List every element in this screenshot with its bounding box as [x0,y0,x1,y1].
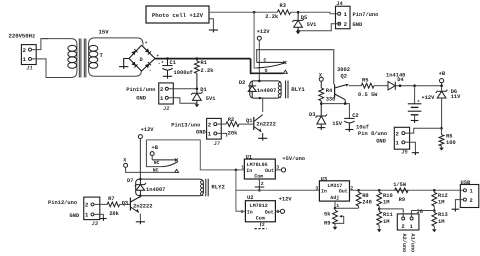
connector J1 [21,45,36,65]
svg-text:1M: 1M [383,200,389,206]
wire D4 to +B [395,85,441,87]
svg-text:1n4007: 1n4007 [257,88,276,94]
wire J5 pin1 to gnd [405,142,416,152]
wire main rail bridge to relay [155,58,251,60]
diode D2 [248,81,256,98]
wire power rail [236,189,320,191]
label pin3 U1 [276,165,279,171]
svg-text:C: C [264,57,267,63]
relay RLY1 arm [257,63,285,68]
label R9 series [399,197,405,203]
wire D6 to R6 [441,128,443,134]
label USB [461,180,471,186]
label 1n4007 D7 [146,187,165,193]
connector J3 [84,197,100,220]
transistor Q2 [335,84,349,104]
svg-text:2: 2 [262,222,265,228]
junction adj [334,207,337,210]
relay RLY2 arm [163,162,178,167]
relay RLY1 coil bumps [278,82,281,97]
wire USB pin2 gnd [455,200,463,209]
svg-text:Out: Out [339,189,348,195]
label R8 [362,193,368,199]
node +12V relay1 [257,36,261,40]
label 240 [362,200,372,206]
ground C2 [345,130,353,132]
ground bar U1 com [255,186,265,188]
svg-text:5k: 5k [324,211,331,217]
label +12V relay1 [257,29,271,35]
svg-text:Com: Com [254,173,263,179]
svg-text:GND: GND [353,22,363,28]
label GND J2 [136,96,146,102]
wire J2 pin2 to D1 [168,88,197,90]
potentiometer R9 5k [333,210,344,227]
wire photocell output [209,11,278,13]
label 1n4007 D2 [257,88,276,94]
label 2.2k R1 [201,68,215,74]
svg-text:1: 1 [396,140,400,147]
svg-text:C1: C1 [170,60,176,66]
label pin1 U3 [336,203,339,209]
svg-text:D5: D5 [301,15,307,21]
ground bridge [119,67,128,69]
relay RLY2 core [206,179,208,197]
junction battery top [413,84,416,87]
label D2 [239,80,245,86]
label +B relay2 [152,145,159,151]
wire R5 to D4 [374,85,388,87]
zener D5 [292,12,304,31]
connector J6 box [397,214,419,230]
svg-text:D3: D3 [309,112,315,118]
svg-text:Q1: Q1 [246,118,252,124]
svg-text:Pin13/uno: Pin13/uno [171,122,200,128]
ground dashed U2 [255,228,267,230]
label RLY2 [211,184,225,191]
label R9 pot [324,220,330,226]
svg-text:3: 3 [276,209,279,215]
label J2 [163,106,170,112]
svg-text:Com: Com [256,215,265,221]
svg-text:D4: D4 [397,77,404,83]
svg-text:20k: 20k [228,131,238,137]
transformer core [79,39,86,78]
svg-text:2n2222: 2n2222 [256,122,275,128]
svg-text:D7: D7 [127,178,133,184]
resistor R7 [107,202,120,207]
label D6 [451,89,457,95]
svg-text:Adj: Adj [330,195,339,201]
bridge rectifier D outline [129,45,155,71]
resistor R4 [319,81,324,103]
label C contact [264,57,267,63]
transformer T secondary loop [89,38,143,76]
svg-text:2.2k: 2.2k [265,14,279,20]
label U2 [247,195,253,201]
svg-text:1n4007: 1n4007 [146,187,165,193]
resistor R3 [278,10,291,15]
svg-text:R11: R11 [383,212,393,218]
svg-text:A2/uno: A2/uno [401,234,407,253]
label R1 [201,60,207,66]
wire rail to U2 [236,190,246,211]
resistor R9 1/5W [395,188,409,193]
svg-text:A1/uno: A1/uno [410,234,416,253]
ground C1 [163,76,172,78]
connector USB box [460,185,479,208]
svg-text:+12V: +12V [279,197,293,203]
label 5V1 D5 [307,22,317,28]
wire J6 pin1 [412,211,435,218]
label J4 [336,1,343,7]
label 2.2k R3 [265,14,279,20]
relay RLY2 contact NO line [152,158,178,161]
transistor Q1 [254,115,263,139]
wire +12V to RLY1 coil [258,40,260,81]
label GND J3 [70,213,80,219]
ground Q3 [136,222,145,224]
svg-text:2: 2 [23,47,27,54]
junction RLY1 bottom [259,97,261,99]
label +B [439,71,446,77]
wire J4 pin2 to D5 gnd [298,24,341,31]
node X left [124,163,128,167]
ground battery [411,121,419,123]
wire photocell drop to arm [254,12,256,68]
ground R11 [377,229,382,232]
svg-text:R4: R4 [326,88,333,94]
wire adj to R8 [335,207,359,209]
wire X to NC line [126,167,175,172]
label NC bottom [153,168,159,174]
label D4 [397,77,404,83]
label R5 [362,77,368,83]
label Q3 [122,200,128,206]
svg-text:R2: R2 [228,117,234,123]
svg-text:+12V: +12V [141,127,155,133]
junction photocell [253,11,256,14]
relay RLY1 core [286,81,288,99]
wire photocell gnd stub [209,19,213,30]
ground R6 [439,148,444,151]
label U3 [321,176,327,182]
capacitor C2 [344,118,354,129]
svg-text:Photo cell +12V: Photo cell +12V [152,12,204,19]
svg-text:+12V: +12V [421,95,435,101]
svg-text:NC: NC [154,160,160,166]
svg-text:R13: R13 [438,212,448,218]
svg-text:Pin 8/uno: Pin 8/uno [358,131,387,137]
wire U2 out [275,210,280,212]
label J1 [26,66,32,72]
svg-text:-: - [131,50,134,56]
label 3002 [337,67,350,73]
ground R13 [432,229,437,232]
label U1 [246,154,252,160]
junction RLY2 top [139,178,141,180]
svg-text:R1: R1 [201,60,207,66]
svg-text:R8: R8 [362,193,368,199]
transformer T primary loop [41,39,77,78]
label pin3 U2 [276,209,279,215]
label +5V/uno [282,156,305,162]
resistor R5 [361,83,374,88]
svg-text:Pin7/uno: Pin7/uno [353,12,379,18]
svg-text:In: In [246,168,252,174]
svg-text:1: 1 [344,11,348,18]
svg-text:GND: GND [196,130,206,136]
svg-text:In: In [321,189,327,195]
ground D3 [317,128,325,130]
junction RLY2 bottom [139,195,141,197]
label A2/uno [401,234,407,253]
label R12 [438,193,448,199]
svg-text:15V: 15V [99,29,110,36]
svg-text:O: O [265,68,268,74]
label 11V D6 [451,94,461,100]
label 330 [326,96,336,102]
svg-text:2: 2 [208,121,212,128]
resistor R6 [439,135,444,148]
wire Q2 emitter to R5 [349,85,362,87]
svg-text:1: 1 [85,212,89,219]
zener D1 [191,89,203,105]
photo cell box [146,6,209,23]
label 5V1 D1 [206,96,216,102]
label GND J7 [196,130,206,136]
svg-text:20k: 20k [109,211,119,217]
node +12V out [280,209,284,213]
label Pin7/uno [353,12,379,18]
wire J1 pin1 to primary [32,59,51,78]
wire J2 pin1 [168,98,197,104]
wire J3 pin2 to R7 [94,203,107,205]
resistor R8 [356,190,361,208]
label pin1 U2 [241,209,244,215]
label C2 [352,113,358,119]
transformer secondary winding bumps [89,45,98,68]
transistor Q3 [130,197,140,222]
junction D4 out [399,84,402,87]
svg-text:J3: J3 [92,221,99,227]
label Pin12/uno [48,200,77,206]
label 20k R2 [228,131,238,137]
junction R1 top [196,57,199,60]
svg-text:+12V: +12V [257,29,271,35]
svg-text:T: T [100,52,104,59]
svg-text:100: 100 [446,140,456,146]
svg-text:10uf: 10uf [356,124,369,130]
svg-text:3002: 3002 [337,67,350,73]
svg-text:11V: 11V [451,94,461,100]
label 100 R6 [446,140,456,146]
svg-text:X: X [123,157,127,163]
wire J6 pin2 [379,209,403,217]
relay RLY2 coil box [136,179,204,196]
svg-text:+B: +B [152,145,159,151]
junction R10 top [378,189,381,192]
relay RLY2 NC terminal [175,169,179,172]
wire U1 In drop [235,170,237,190]
svg-text:+: + [161,60,164,65]
relay RLY1 NC terminal [283,70,287,73]
ground USB [452,209,460,211]
svg-text:R3: R3 [280,3,286,9]
wire +12V to RLY2 coil [139,139,141,180]
label R2 [228,117,234,123]
junction D5 top [297,11,300,14]
svg-text:2: 2 [344,21,348,28]
wire bridge left to ground [124,59,129,67]
wire RLY2 coil to Q3 [139,196,141,198]
svg-text:R12: R12 [438,193,448,199]
svg-text:C2: C2 [352,113,358,119]
svg-text:Q2: Q2 [341,73,347,79]
svg-text:J5: J5 [401,150,408,156]
ground Q1 [258,138,267,140]
svg-text:330: 330 [326,96,336,102]
label 1M R13 [438,219,444,225]
svg-text:15V: 15V [332,121,342,127]
bridge polarity marks [131,41,161,73]
label +12V U2 [279,197,293,203]
ground pot R9 [333,227,338,230]
label Pin 8/uno [358,131,387,137]
connector J2 [159,83,174,104]
svg-text:2: 2 [401,224,404,230]
bridge diode bottom-right [145,62,151,68]
label Q1 [246,118,252,124]
label pin3 U3 [315,185,318,191]
zener D3 [315,104,327,128]
label R3 [280,3,286,9]
label GND J5 [376,139,386,145]
label D bridge [140,57,144,63]
svg-text:+5V/uno: +5V/uno [282,156,305,162]
svg-text:+B: +B [439,71,446,77]
svg-text:240: 240 [362,200,372,206]
junction J2-D1 [196,87,199,90]
svg-text:GND: GND [70,213,80,219]
svg-text:5V1: 5V1 [307,22,317,28]
label +12V battery [421,95,435,101]
svg-text:2: 2 [85,202,89,209]
zener D6 [436,90,448,129]
svg-text:-: - [149,67,152,73]
junction R8 top [357,189,360,192]
label 1M R11 [383,219,389,225]
label 2n2222 Q1 [256,122,275,128]
svg-text:U3: U3 [321,176,327,182]
svg-text:2: 2 [261,181,264,187]
svg-text:R6: R6 [446,133,452,139]
svg-text:1M: 1M [438,219,444,225]
node +12V relay2 [138,135,142,139]
wire RLY2 arm frame [146,140,163,167]
wire J1 pin2 to primary [32,39,49,50]
wire U3 out rail [350,189,463,191]
label 20k R7 [109,211,119,217]
label pin2 U3 [350,185,353,191]
svg-text:1000uf: 1000uf [174,70,193,76]
label R10 [383,193,393,199]
ground photocell [209,30,218,32]
svg-text:D: D [140,57,144,63]
svg-text:R5: R5 [362,77,368,83]
label A1/uno [410,234,416,253]
svg-text:R9: R9 [399,197,405,203]
svg-text:1: 1 [241,165,244,171]
regulator U3 LM317 [319,181,349,201]
label J5 [401,150,408,156]
node X right [319,77,323,81]
label 2n2222 Q3 [133,203,152,209]
regulator U1 LM78L05 [244,159,275,179]
label GND J4 [353,22,363,28]
bridge diode top-left [131,49,137,55]
relay RLY1 contact NO line [257,61,287,64]
label Photo cell +12V [152,12,204,19]
svg-text:1M: 1M [383,219,389,225]
label NC top [154,160,160,166]
label R6 [446,133,452,139]
label 1000uf [174,70,193,76]
label O contact [265,68,268,74]
label 15V D3 [332,121,342,127]
svg-text:5V1: 5V1 [206,96,216,102]
svg-text:2: 2 [470,198,473,204]
connector J5 [394,127,409,149]
connector J7 [207,118,222,139]
label 5k [324,211,331,217]
label Q2 [341,73,347,79]
svg-text:2n2222: 2n2222 [133,203,152,209]
wire +B to D6 [440,83,443,92]
wire U2 com [260,222,262,227]
junction Q2 collector [344,102,347,105]
label X node left [123,157,127,163]
svg-text:D2: D2 [239,80,245,86]
label D5 [301,15,307,21]
label pin2 U2 [262,222,265,228]
svg-text:GND: GND [136,96,146,102]
ground D1 [195,104,200,107]
label 1n4140 [386,73,405,79]
svg-text:RLY2: RLY2 [211,184,225,191]
label 10uf [356,124,369,130]
label J6 [417,209,423,215]
relay RLY2 coil bumps [201,180,204,195]
label C1 [161,60,176,66]
junction D6 bottom [440,127,443,130]
label +12V relay2 [141,127,155,133]
wire RLY2 frame to U1 In [146,140,244,170]
svg-text:220V50Hz: 220V50Hz [9,33,36,40]
transformer primary winding bumps [68,45,77,68]
junction R12 top [433,189,436,192]
svg-text:R7: R7 [108,196,114,202]
bridge diode top-right [145,48,151,54]
label D7 [127,178,133,184]
wire R2 to Q1 base [239,123,254,125]
svg-text:D1: D1 [200,87,206,93]
svg-text:Pin12/uno: Pin12/uno [48,200,77,206]
ground D5 [296,31,301,34]
junction R4 bottom [320,102,323,105]
label RLY1 [291,86,305,93]
battery +12V [408,86,422,121]
